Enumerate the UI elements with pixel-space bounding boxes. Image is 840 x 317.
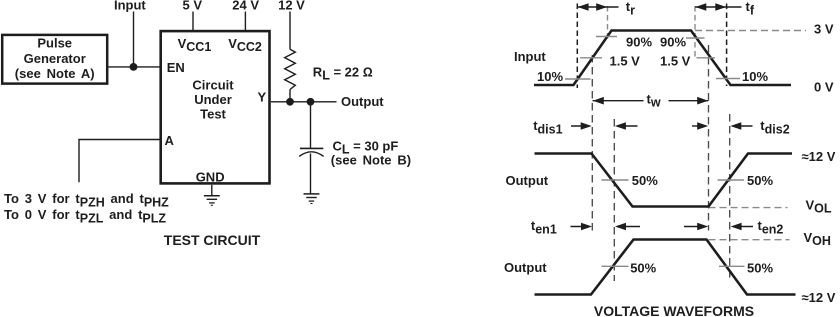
tick 50% out2 rise bbox=[602, 265, 629, 267]
svg-text:Output: Output bbox=[504, 260, 547, 275]
dashed vline 50% right bbox=[729, 114, 731, 281]
capacitor CL bbox=[299, 102, 323, 194]
svg-text:10%: 10% bbox=[742, 69, 768, 84]
svg-text:0 V: 0 V bbox=[814, 80, 834, 95]
svg-text:Generator: Generator bbox=[24, 51, 86, 66]
ground (capacitor) bbox=[304, 194, 320, 204]
wire resistor to node bbox=[289, 90, 291, 102]
wire pulse generator to EN bbox=[108, 66, 160, 68]
arrow tr bbox=[578, 3, 619, 11]
svg-text:50%: 50% bbox=[747, 260, 773, 275]
svg-text:90%: 90% bbox=[660, 35, 686, 50]
tick 1.5V rise bbox=[580, 57, 602, 59]
wire input vertical bbox=[133, 12, 135, 67]
tick 10% fall bbox=[716, 78, 740, 80]
svg-text:5 V: 5 V bbox=[183, 0, 203, 13]
pulse generator box bbox=[2, 35, 107, 84]
wire A to lower left bbox=[79, 140, 160, 183]
svg-text:12 V: 12 V bbox=[278, 0, 305, 13]
input waveform bbox=[534, 31, 791, 86]
dashed vline 1.5V rise bbox=[591, 55, 593, 231]
svg-text:Output: Output bbox=[341, 94, 384, 109]
svg-text:Y: Y bbox=[258, 90, 267, 105]
svg-text:50%: 50% bbox=[632, 173, 658, 188]
output waveform 1 bbox=[535, 154, 793, 207]
dashed vline tf right (10% fall) bbox=[726, 4, 728, 87]
node CL junction bbox=[307, 98, 315, 106]
dashed vline 1.5V fall bbox=[708, 45, 710, 231]
dashed hline VOL level bbox=[709, 207, 788, 209]
tick 50% out1 fall bbox=[602, 179, 629, 181]
svg-text:Pulse: Pulse bbox=[37, 36, 72, 51]
svg-text:EN: EN bbox=[167, 60, 185, 75]
arrow tdis2 bbox=[692, 122, 753, 130]
dashed hline 3 V level bbox=[695, 30, 806, 32]
svg-text:GND: GND bbox=[196, 170, 225, 185]
svg-text:3 V: 3 V bbox=[814, 22, 834, 37]
svg-text:≈12 V: ≈12 V bbox=[802, 149, 836, 164]
svg-text:Output: Output bbox=[506, 173, 549, 188]
ground (GND pin) bbox=[204, 185, 220, 206]
svg-text:Input: Input bbox=[114, 0, 146, 13]
svg-text:24 V: 24 V bbox=[232, 0, 259, 13]
svg-text:Input: Input bbox=[514, 49, 546, 64]
dashed vline tr left (10% rise) bbox=[576, 4, 578, 89]
wire 24V to VCC2 bbox=[244, 12, 246, 31]
svg-text:50%: 50% bbox=[630, 260, 656, 275]
wire 12V to resistor bbox=[289, 12, 291, 50]
dashed vline tf left (90% fall) bbox=[694, 6, 696, 58]
node Y junction bbox=[286, 98, 294, 106]
tick 50% out2 fall bbox=[719, 265, 745, 267]
dashed vline 50% left bbox=[613, 119, 615, 281]
svg-text:90%: 90% bbox=[626, 35, 652, 50]
svg-text:(see Note A): (see Note A) bbox=[15, 66, 95, 81]
tick 10% rise bbox=[565, 78, 591, 80]
wire Y to output bbox=[271, 101, 337, 103]
svg-text:Test: Test bbox=[200, 107, 226, 122]
svg-text:VOLTAGE WAVEFORMS: VOLTAGE WAVEFORMS bbox=[594, 303, 754, 317]
svg-text:≈12 V: ≈12 V bbox=[802, 290, 836, 305]
arrow tw bbox=[593, 97, 709, 105]
tick 50% out1 rise bbox=[718, 179, 745, 181]
tick 1.5V fall bbox=[697, 57, 716, 59]
svg-text:Circuit: Circuit bbox=[192, 77, 234, 92]
arrow ten2 bbox=[684, 223, 753, 231]
svg-text:1.5 V: 1.5 V bbox=[610, 53, 641, 68]
dashed vline tr right (90% rise) bbox=[607, 6, 609, 40]
pulse generator text bbox=[15, 36, 95, 82]
resistor RL bbox=[285, 49, 296, 89]
output waveform 2 bbox=[535, 240, 796, 295]
svg-text:TEST CIRCUIT: TEST CIRCUIT bbox=[164, 232, 261, 248]
svg-text:Under: Under bbox=[194, 92, 232, 107]
arrow tf bbox=[695, 3, 741, 11]
dashed hline VOH level bbox=[709, 239, 790, 241]
tick 90% fall bbox=[686, 37, 705, 39]
arrow ten1 bbox=[571, 223, 641, 231]
tick 90% rise bbox=[596, 36, 617, 38]
arrow tdis1 bbox=[571, 122, 638, 130]
svg-text:A: A bbox=[165, 133, 175, 148]
svg-text:50%: 50% bbox=[747, 173, 773, 188]
svg-text:1.5 V: 1.5 V bbox=[660, 53, 691, 68]
circuit under test box U1 bbox=[161, 31, 270, 183]
node input junction bbox=[130, 63, 138, 71]
wire 5V to VCC1 bbox=[192, 12, 194, 31]
svg-text:10%: 10% bbox=[537, 69, 563, 84]
svg-text:(see Note B): (see Note B) bbox=[331, 152, 411, 167]
text Circuit Under Test bbox=[192, 77, 234, 121]
